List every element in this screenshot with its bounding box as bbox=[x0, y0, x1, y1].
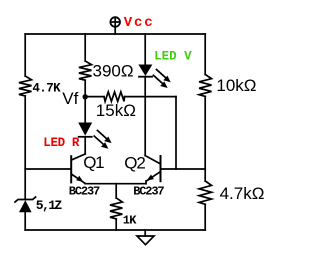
resistor 10kOhm bbox=[199, 75, 211, 97]
wire Vf node down to LED R bbox=[84, 97, 86, 123]
LED R diode bbox=[78, 123, 92, 137]
svg-text:LED R: LED R bbox=[43, 136, 80, 150]
wire right rail upper bbox=[204, 34, 206, 75]
transistor Q1 bbox=[71, 154, 85, 184]
ground symbol bbox=[137, 230, 154, 245]
zener diode 5,1Z bbox=[15, 197, 36, 230]
LED V diode bbox=[138, 65, 152, 77]
svg-text:Vcc: Vcc bbox=[124, 15, 155, 31]
LED R emission arrow 2 bbox=[94, 136, 108, 149]
svg-text:Vf: Vf bbox=[62, 89, 78, 108]
resistor 390Ohm bbox=[79, 61, 92, 80]
svg-text:15kΩ: 15kΩ bbox=[96, 101, 136, 120]
svg-text:BC237: BC237 bbox=[133, 185, 164, 199]
wire 15k to vertical bbox=[125, 96, 176, 98]
svg-text:5,1Z: 5,1Z bbox=[36, 198, 63, 213]
wire Q1 base to left rail bbox=[25, 168, 70, 170]
transistor Q2 bbox=[145, 156, 160, 184]
svg-text:1K: 1K bbox=[123, 214, 138, 228]
wire LED V to Q2 collector bbox=[144, 77, 146, 156]
wire 1K to bottom rail bbox=[115, 219, 117, 230]
svg-text:LED V: LED V bbox=[154, 49, 192, 63]
wire vertical to Q2 base node bbox=[175, 97, 177, 169]
svg-text:10kΩ: 10kΩ bbox=[216, 76, 256, 95]
wire 390 to Vf node bbox=[84, 80, 86, 97]
wire Q2 base to divider node bbox=[161, 168, 205, 170]
svg-text:4.7kΩ: 4.7kΩ bbox=[220, 184, 265, 203]
wire bottom rail bbox=[25, 229, 205, 231]
wire left rail middle bbox=[24, 96, 26, 200]
LED V emission arrow 2 bbox=[153, 75, 167, 88]
node Vf junction dot bbox=[83, 94, 88, 99]
resistor 4.7kOhm bbox=[199, 181, 211, 204]
resistor 15kOhm bbox=[104, 92, 125, 102]
wire LED R to Q1 collector bbox=[84, 137, 86, 154]
svg-text:BC237: BC237 bbox=[69, 185, 100, 199]
wire emitter rail bbox=[85, 183, 146, 185]
svg-text:390Ω: 390Ω bbox=[93, 62, 134, 81]
svg-text:4.7K: 4.7K bbox=[32, 81, 61, 95]
LED V emission arrow 1 bbox=[157, 70, 171, 83]
wire 390 branch from top rail bbox=[84, 34, 86, 61]
wire LED V branch from top rail bbox=[144, 34, 146, 65]
wire left rail upper bbox=[24, 34, 26, 76]
wire Vf horizontal run bbox=[85, 96, 104, 98]
svg-text:Q2: Q2 bbox=[124, 153, 145, 172]
wire right rail middle bbox=[204, 96, 206, 181]
svg-text:Q1: Q1 bbox=[83, 153, 104, 172]
wire right rail lower bbox=[204, 204, 206, 230]
resistor 1K bbox=[110, 198, 122, 219]
wire 1K stem bbox=[115, 184, 117, 198]
power Vcc symbol bbox=[110, 17, 120, 34]
LED R emission arrow 1 bbox=[97, 130, 111, 143]
resistor 4.7K bbox=[19, 76, 32, 96]
wire top rail bbox=[25, 33, 205, 35]
